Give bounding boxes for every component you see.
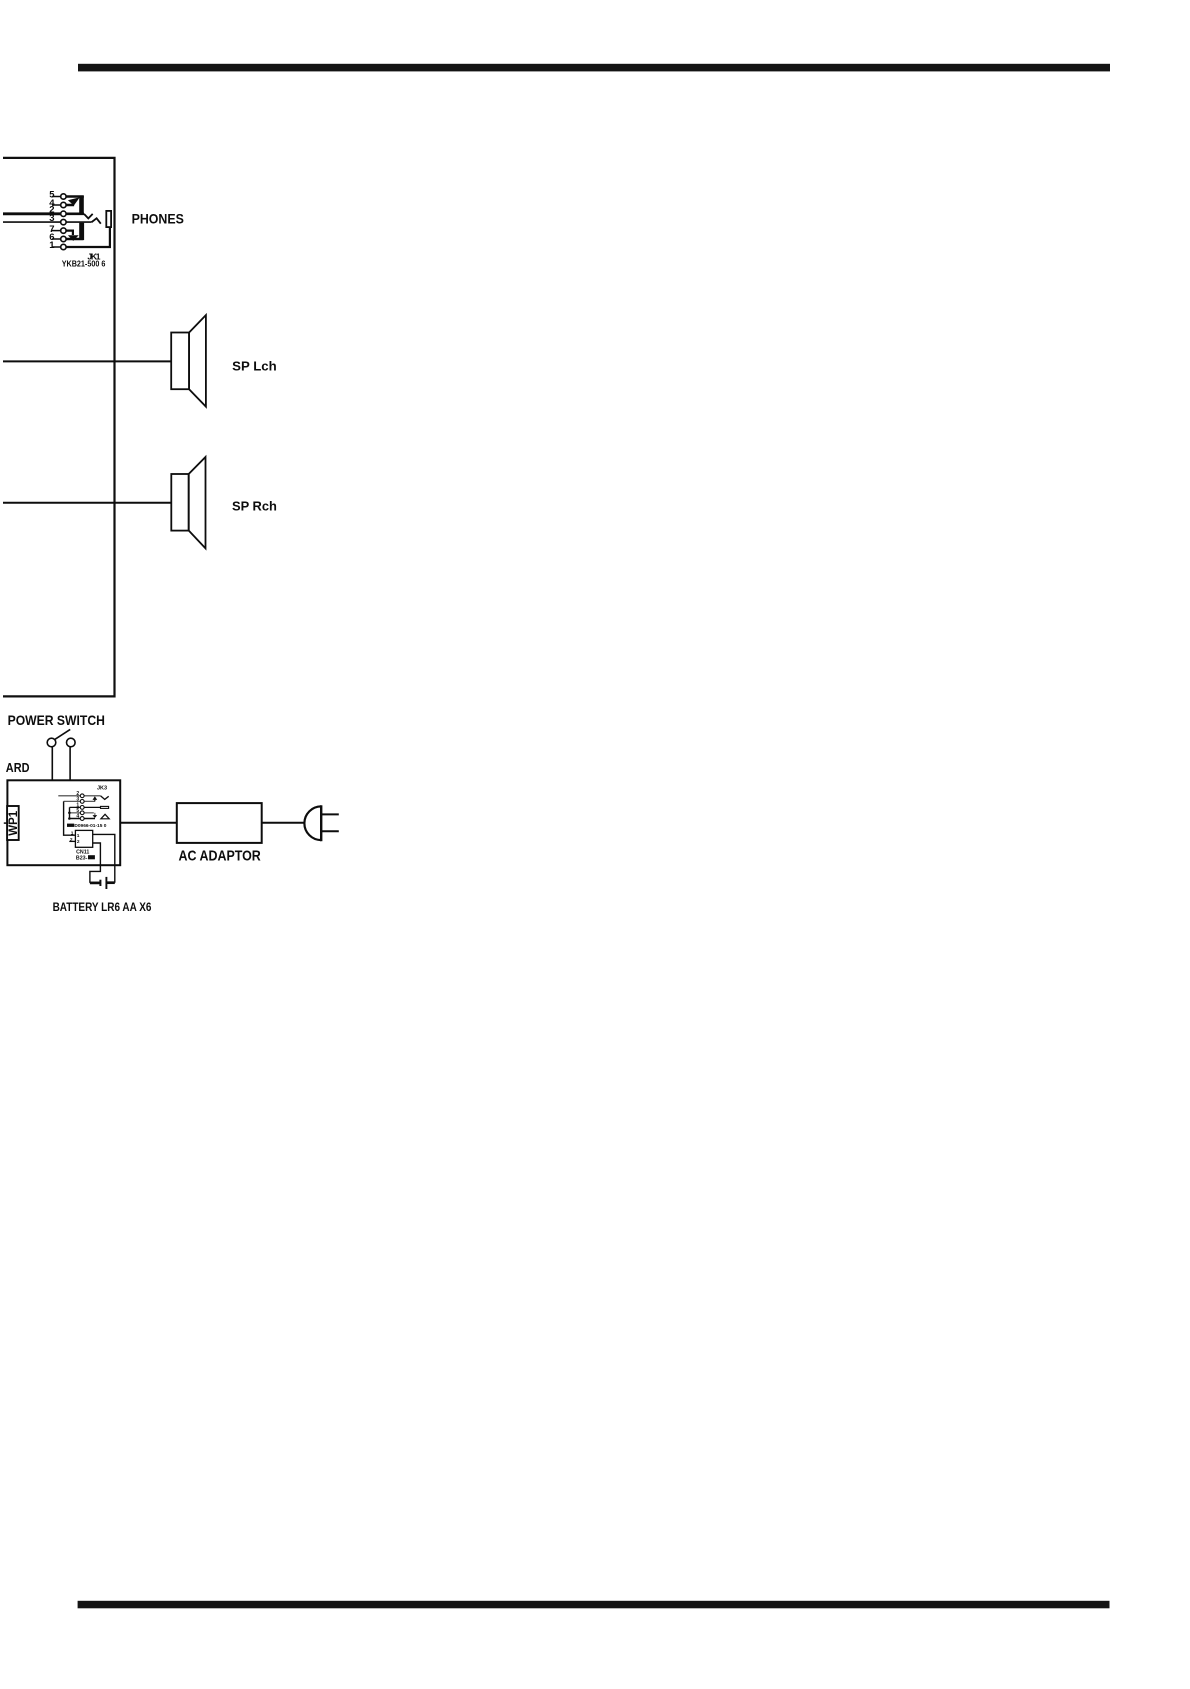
- CN11 part number blob: [88, 855, 95, 859]
- JK3 pin 2 check contact: [101, 796, 109, 800]
- JK3 down arrow shaft: [94, 813, 96, 815]
- top border rule: [78, 64, 1110, 72]
- JK3 wire pin3 to CN11 pin1: [64, 801, 76, 835]
- pin 1 wire to sleeve: [66, 228, 110, 247]
- svg-text:4: 4: [76, 814, 79, 820]
- JK1 lower contact bar: [79, 223, 84, 240]
- svg-text:SP Lch: SP Lch: [232, 359, 277, 374]
- CN11 external pin numbers: [70, 831, 74, 843]
- wire to SP Lch: [3, 360, 171, 362]
- JK1 sleeve symbol: [106, 211, 111, 227]
- AC plug flat side: [320, 805, 322, 841]
- connector CN11: [75, 830, 92, 847]
- svg-text:JK3: JK3: [97, 785, 107, 791]
- wire CN11 pin2 to battery minus: [90, 843, 101, 883]
- AC plug prong lower: [322, 830, 339, 832]
- AC adaptor box: [177, 803, 262, 843]
- JK3 pin 2 line: [58, 795, 100, 797]
- AC plug body arc: [304, 806, 321, 840]
- JK3 pin 5 line: [69, 812, 94, 814]
- pin 2 contact line: [66, 213, 84, 216]
- JK3 down arrow head: [93, 815, 98, 818]
- JK1 upper contact bar: [79, 196, 84, 214]
- main board outline: [7, 780, 120, 865]
- pin 7 stub: [52, 230, 61, 232]
- svg-text:B23-: B23-: [76, 855, 88, 861]
- speaker SP Rch: [3, 457, 206, 548]
- svg-text:1: 1: [71, 831, 74, 837]
- JK3 tip contact symbol: [101, 806, 109, 808]
- svg-text:ARD: ARD: [6, 761, 30, 775]
- svg-text:BATTERY LR6 AA X6: BATTERY LR6 AA X6: [53, 900, 152, 914]
- power switch S1: [47, 729, 75, 780]
- SP Lch horn: [189, 315, 206, 407]
- SP Lch frame: [171, 333, 189, 390]
- pin 3 contact line: [66, 221, 92, 223]
- svg-text:D0966-01-15 0: D0966-01-15 0: [74, 823, 106, 829]
- pin 3 hump contact: [92, 218, 101, 223]
- AC plug prong upper: [322, 813, 339, 815]
- switch contact right: [67, 738, 76, 747]
- battery minus plate: [99, 880, 101, 886]
- pin 4 stub: [52, 204, 61, 206]
- battery plus lead: [107, 881, 115, 884]
- svg-text:WP1: WP1: [8, 810, 20, 836]
- JK1 pin circles: [61, 194, 66, 250]
- battery wiring: [90, 834, 115, 889]
- CN11 internal pin numbers: [77, 833, 80, 845]
- WP1 tick: [4, 822, 7, 824]
- wire pin3 left: [3, 221, 61, 223]
- JK1 upper arrow head: [68, 197, 80, 205]
- wire switch right to board: [69, 747, 71, 780]
- JK3 pin 1 line: [70, 806, 101, 808]
- svg-text:3: 3: [49, 213, 54, 224]
- svg-text:2: 2: [70, 837, 73, 843]
- wire pin2 left: [3, 212, 61, 215]
- svg-text:POWER SWITCH: POWER SWITCH: [8, 712, 105, 728]
- svg-text:AC ADAPTOR: AC ADAPTOR: [179, 848, 261, 865]
- svg-text:2: 2: [77, 839, 80, 845]
- battery plus plate: [105, 877, 107, 889]
- wire AC adaptor to plug: [262, 822, 305, 824]
- pin 6 contact line: [66, 238, 83, 240]
- pin 5 contact line: [66, 195, 84, 197]
- bottom border rule: [78, 1601, 1110, 1609]
- switch contact left: [47, 738, 56, 747]
- pin 1 stub: [52, 246, 61, 248]
- JK3 pin 4 line: [69, 818, 95, 820]
- SP Rch horn: [189, 457, 206, 548]
- pin 4 arrow shaft: [66, 201, 73, 205]
- wire board to AC adaptor: [120, 822, 177, 824]
- pin 6 stub: [52, 238, 61, 240]
- JK1 pin numbers: [49, 190, 55, 252]
- switch lever: [55, 729, 70, 739]
- JK3 ring contact triangle: [101, 814, 109, 819]
- JK3 pin 3 line: [64, 800, 95, 802]
- svg-text:1: 1: [77, 833, 80, 839]
- pin 2 check contact: [84, 214, 93, 219]
- JK3 up arrow shaft: [94, 800, 96, 802]
- wire switch left to board: [51, 747, 53, 780]
- JK3 pin circles: [80, 794, 84, 821]
- pin 7 arrow shaft: [66, 231, 73, 235]
- JK3 junction dot pin5: [68, 812, 71, 815]
- wire to SP Rch: [3, 502, 171, 504]
- CN11 pin 2 stub: [69, 840, 75, 842]
- JK3 pin numbers: [76, 791, 79, 820]
- svg-text:YKB21-500 6: YKB21-500 6: [62, 260, 106, 269]
- connector WP1: [7, 806, 19, 840]
- JK3 junction dot pin4: [68, 817, 71, 820]
- svg-text:PHONES: PHONES: [132, 211, 184, 226]
- speaker SP Lch: [3, 315, 206, 407]
- JK3 part number blob: [67, 824, 74, 827]
- JK3 up arrow head: [93, 796, 98, 800]
- unit outline: [3, 158, 115, 697]
- svg-text:1: 1: [49, 240, 55, 251]
- connector JK1: [3, 197, 110, 248]
- battery minus lead: [90, 882, 100, 885]
- JK1 lower arrow head: [68, 235, 79, 241]
- svg-text:SP Rch: SP Rch: [232, 499, 277, 514]
- JK3 wire pin1 to pin4: [69, 807, 71, 818]
- pin 5 stub: [52, 196, 61, 198]
- SP Rch frame: [171, 474, 188, 531]
- wire CN11 pin1 to battery plus: [93, 834, 115, 882]
